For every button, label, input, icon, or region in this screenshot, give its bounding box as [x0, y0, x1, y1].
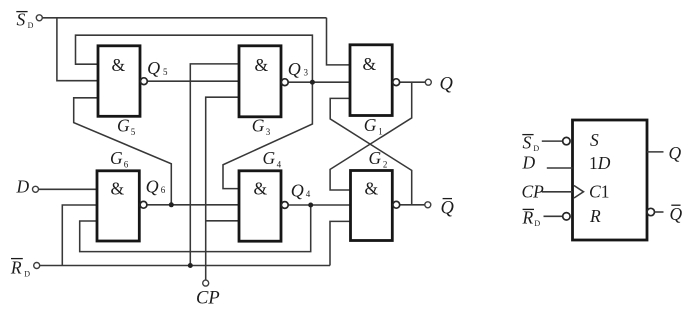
wire Qbar output: [400, 204, 425, 206]
svg-text:Q: Q: [669, 143, 682, 163]
svg-text:5: 5: [131, 127, 136, 137]
pin CP input wire: [542, 191, 573, 193]
svg-text:C1: C1: [589, 181, 609, 201]
svg-text:1: 1: [378, 126, 383, 136]
wire Q6 to G5 bottom input (diagonal): [74, 98, 172, 205]
svg-text:D: D: [24, 270, 30, 279]
NAND gate G2: [351, 171, 393, 241]
svg-text:Q: Q: [291, 181, 304, 201]
label G6: [110, 148, 129, 170]
gate G4 output bubble: [281, 202, 288, 209]
label G2: [369, 148, 388, 170]
label Q3: [288, 59, 309, 79]
svg-text:6: 6: [161, 185, 166, 195]
wire Q4 feedback to G6 bottom input: [80, 205, 311, 252]
svg-text:S: S: [590, 130, 599, 150]
svg-text:Q: Q: [440, 75, 454, 95]
label Qbar: [441, 199, 455, 219]
wire RD to G3 top input: [190, 64, 239, 266]
dynamic input triangle C1: [574, 186, 584, 199]
label Q5: [147, 58, 168, 78]
svg-text:3: 3: [266, 127, 271, 137]
wire net D input: [39, 188, 98, 190]
svg-text:3: 3: [304, 68, 309, 78]
svg-text:Q: Q: [146, 176, 159, 196]
gate G2 output bubble: [393, 201, 400, 208]
svg-text:Q: Q: [288, 59, 301, 79]
svg-text:Q: Q: [670, 204, 683, 224]
label Qbar (symbol): [670, 204, 683, 224]
label RD (symbol): [522, 207, 541, 228]
pin Qbar bubble: [647, 208, 654, 215]
wire Qbar to G1 bottom input (cross diagonal): [330, 98, 412, 204]
NAND gate G1: [350, 45, 392, 116]
svg-text:D: D: [28, 21, 34, 30]
node RD junction: [188, 263, 193, 268]
pin R bubble: [563, 213, 570, 220]
gate G3 output bubble: [281, 79, 288, 86]
svg-text:&: &: [363, 54, 377, 74]
label G1: [364, 115, 383, 137]
pin label R: [589, 206, 601, 226]
label G3: [252, 116, 271, 138]
svg-text:Q: Q: [441, 199, 455, 219]
wire Q to G2 top input (cross diagonal): [330, 82, 412, 190]
pin label S: [590, 130, 599, 150]
svg-text:G: G: [369, 148, 382, 168]
svg-text:&: &: [255, 55, 269, 75]
svg-text:4: 4: [306, 189, 311, 199]
label Q6: [146, 176, 166, 196]
wire Q6: G6 output to G4 middle input: [147, 204, 239, 206]
wire net RD: bottom rail: [40, 265, 330, 267]
svg-text:&: &: [112, 55, 126, 75]
svg-text:R: R: [522, 207, 534, 227]
gate G1 output bubble: [393, 79, 400, 86]
wire Q4: G4 output to G2 middle input: [288, 204, 350, 206]
pin label 1D: [589, 153, 611, 173]
svg-text:G: G: [364, 115, 377, 135]
label Q4: [291, 181, 311, 201]
gate G5 output bubble: [141, 78, 148, 85]
svg-text:S: S: [17, 9, 26, 29]
svg-text:G: G: [117, 116, 130, 136]
input terminal CP: [203, 280, 209, 286]
wire RD to G6 middle input: [62, 205, 97, 266]
label SD (symbol): [522, 132, 539, 153]
wire Q5: G5 output to G3 input: [147, 80, 239, 82]
svg-text:D: D: [16, 177, 30, 197]
svg-text:S: S: [523, 132, 532, 152]
wire Q output: [400, 81, 426, 83]
D flip-flop symbol U1: [573, 120, 648, 240]
svg-text:2: 2: [383, 160, 388, 170]
pin R input wire: [544, 215, 563, 217]
pin Q output wire: [647, 151, 664, 153]
label Q (symbol): [669, 143, 682, 163]
label CP: [196, 289, 220, 309]
svg-text:Q: Q: [147, 58, 160, 78]
NAND gate G5: [98, 46, 140, 117]
svg-text:G: G: [263, 148, 276, 168]
node Q3 junction: [310, 80, 315, 85]
NAND gate G4: [239, 171, 281, 241]
node Q6 junction: [169, 202, 174, 207]
node Q4 junction: [308, 203, 313, 208]
output terminal Q: [425, 79, 431, 85]
label SD: [16, 9, 33, 30]
label G4: [263, 148, 282, 170]
pin Qbar output wire: [655, 211, 664, 213]
pin S input wire: [542, 140, 563, 142]
pin S bubble: [563, 137, 570, 144]
wire Q3 to G4 top input (diagonal): [223, 82, 312, 188]
label D: [16, 177, 30, 197]
svg-text:R: R: [10, 258, 22, 278]
svg-text:G: G: [110, 148, 123, 168]
wire net Q3 feedback to G5 top input: [76, 35, 313, 82]
svg-text:1D: 1D: [589, 153, 611, 173]
label Q: [440, 75, 454, 95]
label D (symbol): [522, 153, 536, 173]
svg-text:6: 6: [124, 160, 129, 170]
svg-text:&: &: [111, 179, 125, 199]
output terminal Qbar: [425, 202, 431, 208]
NAND gate G3: [239, 46, 281, 117]
svg-text:R: R: [589, 206, 601, 226]
svg-text:5: 5: [163, 67, 168, 77]
wire Q3: G3 output to G1 input: [288, 81, 350, 83]
label CP (symbol): [522, 182, 545, 202]
NAND gate G6: [97, 171, 139, 241]
wire CP branch to G4 bottom input: [206, 220, 239, 222]
pin D input wire: [547, 167, 573, 169]
svg-text:D: D: [534, 219, 540, 228]
svg-text:4: 4: [277, 160, 282, 170]
input terminal SD: [36, 15, 42, 21]
input terminal RD: [34, 263, 40, 269]
wire net SD: input line to G5 and G1: [42, 18, 350, 81]
svg-text:D: D: [522, 153, 536, 173]
svg-text:CP: CP: [522, 182, 545, 202]
svg-text:&: &: [365, 179, 379, 199]
svg-text:CP: CP: [196, 289, 220, 309]
input terminal D: [33, 186, 39, 192]
gate G6 output bubble: [140, 201, 147, 208]
wire net CP: vertical to G3 bottom input: [206, 97, 239, 280]
svg-text:&: &: [254, 179, 268, 199]
label G5: [117, 116, 136, 137]
pin label C1: [589, 181, 609, 201]
wire RD to G2 bottom input: [330, 221, 351, 265]
svg-text:G: G: [252, 116, 265, 136]
label RD: [10, 258, 30, 279]
